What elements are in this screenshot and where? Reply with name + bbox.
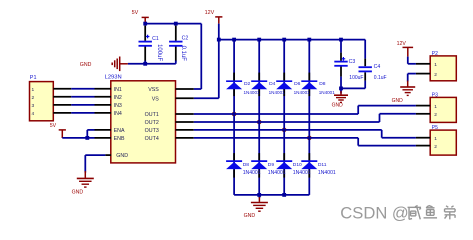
svg-text:IN3: IN3 — [114, 103, 122, 109]
svg-text:IN4: IN4 — [114, 111, 122, 117]
svg-text:C1: C1 — [152, 36, 159, 42]
svg-text:2: 2 — [434, 72, 437, 78]
svg-text:3: 3 — [32, 103, 35, 109]
svg-text:0.1uF: 0.1uF — [374, 75, 387, 81]
svg-text:5V: 5V — [132, 10, 139, 16]
svg-text:GND: GND — [72, 190, 84, 196]
svg-text:D8: D8 — [243, 162, 250, 168]
svg-text:1N4001: 1N4001 — [293, 170, 311, 176]
svg-text:D4: D4 — [269, 81, 276, 87]
svg-text:12V: 12V — [205, 10, 215, 16]
svg-text:1N4001: 1N4001 — [244, 90, 261, 95]
svg-text:1: 1 — [434, 104, 437, 110]
svg-text:OUT3: OUT3 — [145, 128, 159, 134]
svg-text:1: 1 — [32, 87, 35, 93]
svg-text:1N4001: 1N4001 — [268, 170, 286, 176]
svg-text:P1: P1 — [30, 75, 37, 81]
svg-text:OUT4: OUT4 — [145, 136, 159, 142]
svg-text:100uF: 100uF — [156, 44, 162, 61]
svg-text:D6: D6 — [294, 81, 301, 87]
svg-text:OUT2: OUT2 — [145, 120, 159, 126]
svg-text:P5: P5 — [432, 125, 438, 131]
svg-text:5V: 5V — [50, 123, 57, 129]
svg-text:OUT1: OUT1 — [145, 112, 159, 118]
svg-text:GND: GND — [80, 62, 92, 68]
svg-text:D11: D11 — [318, 162, 327, 168]
svg-text:D10: D10 — [293, 162, 302, 168]
svg-text:2: 2 — [434, 144, 437, 150]
svg-text:P3: P3 — [432, 92, 438, 98]
svg-text:D9: D9 — [268, 162, 275, 168]
svg-text:C4: C4 — [374, 64, 381, 70]
svg-text:1N4001: 1N4001 — [243, 170, 261, 176]
svg-text:2: 2 — [32, 95, 35, 101]
svg-text:GND: GND — [244, 213, 256, 219]
svg-text:1: 1 — [434, 62, 437, 68]
svg-text:1N4001: 1N4001 — [319, 90, 336, 95]
svg-text:1: 1 — [434, 136, 437, 142]
svg-text:D2: D2 — [244, 81, 251, 87]
svg-text:IN2: IN2 — [114, 95, 122, 101]
svg-text:VSS: VSS — [148, 87, 159, 93]
svg-text:1N4001: 1N4001 — [318, 170, 336, 176]
svg-text:D8: D8 — [319, 81, 326, 87]
svg-text:1N4001: 1N4001 — [269, 90, 286, 95]
svg-text:ENB: ENB — [114, 136, 125, 142]
svg-text:C2: C2 — [182, 35, 189, 41]
svg-text:ENA: ENA — [114, 128, 125, 134]
svg-text:VS: VS — [152, 96, 160, 102]
svg-text:GND: GND — [392, 98, 404, 104]
svg-text:P2: P2 — [432, 51, 438, 57]
svg-text:0.1uF: 0.1uF — [180, 46, 186, 62]
svg-text:CSDN @: CSDN @ — [340, 203, 408, 222]
svg-text:C3: C3 — [349, 59, 356, 65]
svg-text:GND: GND — [332, 102, 344, 108]
svg-text:GND: GND — [116, 153, 128, 159]
svg-text:2: 2 — [434, 112, 437, 118]
svg-text:L293N: L293N — [105, 75, 122, 81]
svg-text:4: 4 — [32, 111, 35, 117]
svg-text:IN1: IN1 — [114, 87, 122, 93]
svg-text:100uF: 100uF — [349, 75, 363, 81]
svg-text:12V: 12V — [397, 41, 407, 47]
svg-text:1N4001: 1N4001 — [294, 90, 311, 95]
